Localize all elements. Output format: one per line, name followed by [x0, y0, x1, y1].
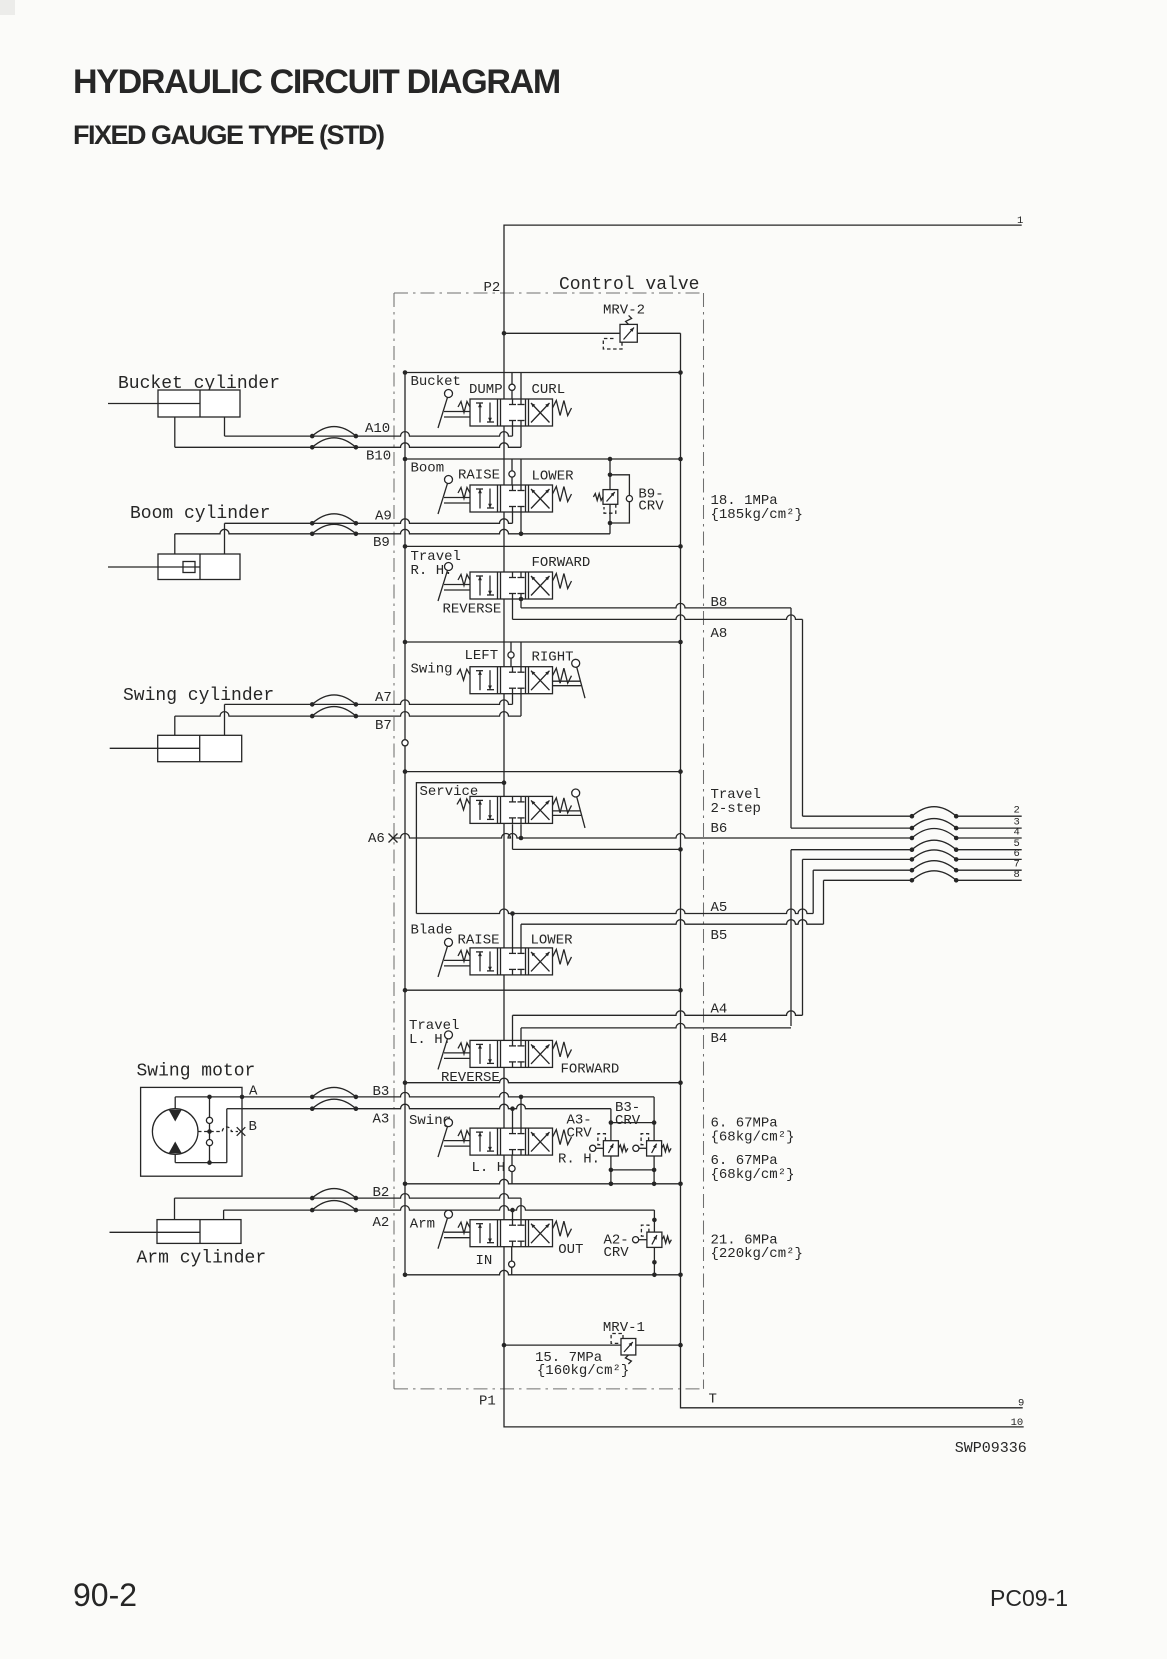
svg-text:1: 1 [1017, 215, 1023, 227]
wire A3 [242, 1104, 611, 1109]
manual lever of arm [444, 1231, 470, 1233]
svg-text:{68kg/cm²}: {68kg/cm²} [711, 1130, 795, 1146]
svg-text:Bucket: Bucket [411, 374, 461, 390]
svg-text:FORWARD: FORWARD [561, 1062, 620, 1078]
wire terminal5 down to B4 [790, 850, 792, 1026]
port stubs bucket [511, 373, 513, 385]
svg-text:{185kg/cm²}: {185kg/cm²} [711, 507, 803, 523]
wire service tank to right bus [512, 824, 514, 849]
svg-text:{68kg/cm²}: {68kg/cm²} [711, 1167, 795, 1183]
hose terminal 2 [910, 814, 915, 819]
svg-text:RAISE: RAISE [458, 933, 500, 949]
plugged port X at A6 [389, 834, 398, 843]
svg-text:P1: P1 [479, 1394, 496, 1410]
svg-text:LEFT: LEFT [465, 648, 499, 664]
svg-text:Swing motor: Swing motor [137, 1062, 256, 1082]
svg-text:8: 8 [1014, 869, 1020, 881]
terminal hoses 2-8 with numbered lines [803, 815, 912, 817]
svg-text:A4: A4 [711, 1002, 728, 1018]
wire B8 [520, 599, 522, 608]
svg-text:CRV: CRV [638, 499, 664, 515]
manual lever of service [457, 799, 470, 810]
svg-text:Boom cylinder: Boom cylinder [130, 504, 270, 524]
wire A9 [225, 519, 513, 524]
wire B3 [242, 1092, 654, 1097]
wire A7 [225, 700, 513, 705]
svg-text:MRV-2: MRV-2 [603, 303, 645, 319]
port stubs swing [510, 642, 512, 652]
manual lever of swing LH/RH [444, 1140, 470, 1142]
wire B7 [175, 712, 521, 717]
valve body arm [470, 1220, 553, 1247]
wire B5 up to terminal8 [823, 880, 825, 924]
svg-text:B4: B4 [711, 1031, 728, 1047]
svg-text:9: 9 [1018, 1398, 1024, 1410]
svg-text:Blade: Blade [411, 923, 453, 939]
wire: inner left bus (x=405) [404, 373, 406, 1275]
valve body service [470, 796, 553, 823]
relief valve rail A2-CRV [653, 1210, 655, 1232]
service box outline [416, 783, 504, 914]
svg-text:RAISE: RAISE [458, 468, 500, 484]
wire A10 [225, 432, 513, 437]
manual lever of bucket [444, 411, 470, 413]
hose terminal 8 [910, 878, 915, 883]
scan corner artifact [0, 0, 15, 15]
wire A4 [512, 1015, 514, 1040]
hose terminal 5 [910, 847, 915, 852]
relief valve A2-CRV [639, 1239, 647, 1241]
wire: tank line right bus (x=680.5) and bottom line 9 [681, 333, 1023, 1408]
svg-text:R. H.: R. H. [558, 1152, 600, 1168]
wire A5 up to terminal7 [812, 870, 814, 913]
svg-text:2: 2 [1014, 805, 1020, 817]
motor top wire (port A) [175, 1096, 242, 1098]
wire A5 [416, 909, 813, 914]
svg-text:REVERSE: REVERSE [441, 1070, 500, 1086]
hose terminal 4 [910, 836, 915, 841]
svg-text:A8: A8 [711, 626, 728, 642]
valve body bucket [470, 399, 553, 426]
wire terminal6 down to A4 [802, 859, 804, 1015]
wire B4 [520, 1028, 522, 1041]
svg-text:10: 10 [1011, 1417, 1024, 1429]
cylinder with cushion box [183, 562, 195, 573]
svg-text:A10: A10 [365, 421, 390, 437]
plug port circle on left bus [402, 740, 408, 746]
port stubs boom [511, 459, 513, 471]
manual lever of travel RH [444, 584, 470, 586]
port circle below arm valve [511, 1247, 513, 1261]
relief valve B9-CRV [609, 459, 611, 490]
wire A2 [224, 1206, 655, 1211]
valve body swing [470, 667, 553, 694]
svg-text:B3: B3 [373, 1084, 390, 1100]
svg-text:B8: B8 [711, 595, 728, 611]
svg-text:A6: A6 [368, 831, 385, 847]
svg-text:A2: A2 [373, 1215, 390, 1231]
svg-text:RIGHT: RIGHT [532, 650, 574, 666]
svg-text:IN: IN [476, 1253, 493, 1269]
svg-text:LOWER: LOWER [531, 933, 574, 949]
svg-text:CRV: CRV [615, 1113, 641, 1129]
hose terminal 3 [910, 826, 915, 831]
svg-text:2-step: 2-step [711, 801, 761, 817]
svg-text:T: T [709, 1392, 717, 1408]
hose terminal 6 [910, 857, 915, 862]
svg-text:HYDRAULIC CIRCUIT DIAGRAM: HYDRAULIC CIRCUIT DIAGRAM [73, 63, 560, 101]
svg-text:L. H.: L. H. [472, 1160, 514, 1176]
wire B10 [175, 443, 521, 447]
valve body blade [470, 948, 553, 975]
svg-text:Arm cylinder: Arm cylinder [137, 1249, 267, 1269]
svg-text:Swing cylinder: Swing cylinder [123, 686, 274, 706]
plugged port X (B) [237, 1127, 246, 1136]
svg-text:CRV: CRV [604, 1245, 630, 1261]
svg-text:90-2: 90-2 [73, 1577, 137, 1613]
wire B2 [175, 1194, 522, 1199]
valve body boom [470, 485, 553, 512]
svg-text:PC09-1: PC09-1 [990, 1585, 1068, 1611]
svg-text:CURL: CURL [532, 382, 566, 398]
svg-text:A9: A9 [375, 509, 392, 525]
manual lever of blade [444, 959, 470, 961]
svg-text:B7: B7 [375, 718, 392, 734]
svg-text:{160kg/cm²}: {160kg/cm²} [537, 1363, 629, 1379]
svg-text:DUMP: DUMP [469, 382, 503, 398]
wire A6 to travel 2-step terminal 4 [394, 834, 912, 839]
svg-text:CRV: CRV [567, 1126, 593, 1142]
svg-text:4: 4 [1014, 827, 1020, 839]
manual lever of swing [457, 669, 470, 680]
svg-text:REVERSE: REVERSE [443, 602, 502, 618]
manual lever of travel LH [444, 1052, 470, 1054]
svg-text:B: B [249, 1119, 257, 1135]
wire from B8 down to terminal 3 [790, 608, 792, 828]
hose terminal 7 [910, 868, 915, 873]
svg-text:SWP09336: SWP09336 [955, 1440, 1027, 1457]
check valve line [209, 1097, 211, 1117]
svg-text:A3: A3 [373, 1112, 390, 1128]
relief valve A3-CRV [596, 1147, 604, 1149]
valve body swing LH/RH [470, 1128, 553, 1155]
valve body travel LH [470, 1040, 553, 1067]
wire A8 [512, 599, 514, 619]
svg-text:Swing: Swing [411, 662, 453, 678]
svg-text:A7: A7 [375, 690, 392, 706]
wire: pump line P2 vertical, top line 1 and bottom line 10 [504, 225, 1024, 1427]
pilot dashed line to plugged port B [198, 1127, 238, 1132]
relief valve rails A3-CRV / B3-CRV [610, 1109, 612, 1141]
wire from A8 down to terminal 2 [802, 619, 804, 816]
svg-text:FIXED GAUGE TYPE (STD): FIXED GAUGE TYPE (STD) [73, 120, 384, 150]
svg-text:A5: A5 [711, 900, 728, 916]
manual lever of boom [444, 497, 470, 499]
section rails between valve sections [405, 372, 681, 374]
motor bottom wire [175, 1162, 227, 1164]
port circle below swing valve [511, 1155, 513, 1165]
svg-text:{220kg/cm²}: {220kg/cm²} [711, 1246, 803, 1262]
wire B5 [520, 924, 522, 948]
svg-text:Arm: Arm [410, 1217, 435, 1233]
svg-text:LOWER: LOWER [532, 469, 575, 485]
svg-text:FORWARD: FORWARD [532, 555, 591, 571]
svg-text:B2: B2 [373, 1185, 390, 1201]
svg-text:Boom: Boom [411, 461, 445, 477]
svg-text:B10: B10 [366, 449, 391, 465]
svg-text:B9: B9 [373, 535, 390, 551]
svg-text:B6: B6 [711, 821, 728, 837]
svg-text:P2: P2 [484, 280, 501, 296]
wire B9 [175, 529, 610, 534]
svg-text:OUT: OUT [558, 1242, 583, 1258]
valve body travel RH [470, 572, 553, 599]
svg-text:Control valve: Control valve [559, 275, 699, 295]
svg-text:MRV-1: MRV-1 [603, 1320, 645, 1336]
svg-text:B5: B5 [711, 928, 728, 944]
control valve dash-dot boundary box [394, 292, 704, 294]
relief valve B3-CRV [639, 1147, 647, 1149]
